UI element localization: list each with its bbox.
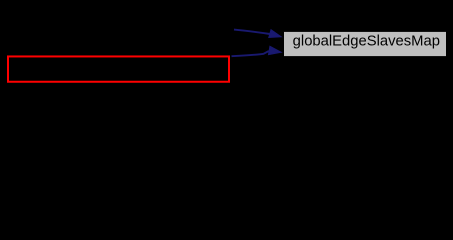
svg-text:globalEdgeSlavesMap: globalEdgeSlavesMap <box>293 33 440 49</box>
node: truncated red node (empty label on black) <box>8 56 229 81</box>
node globalEdgeSlavesMap (current node, grey fill) <box>284 31 447 56</box>
edge: lower arrow from red node into globalEdgeSlavesMap <box>232 46 282 56</box>
edge: upper arrow into globalEdgeSlavesMap <box>234 30 281 38</box>
